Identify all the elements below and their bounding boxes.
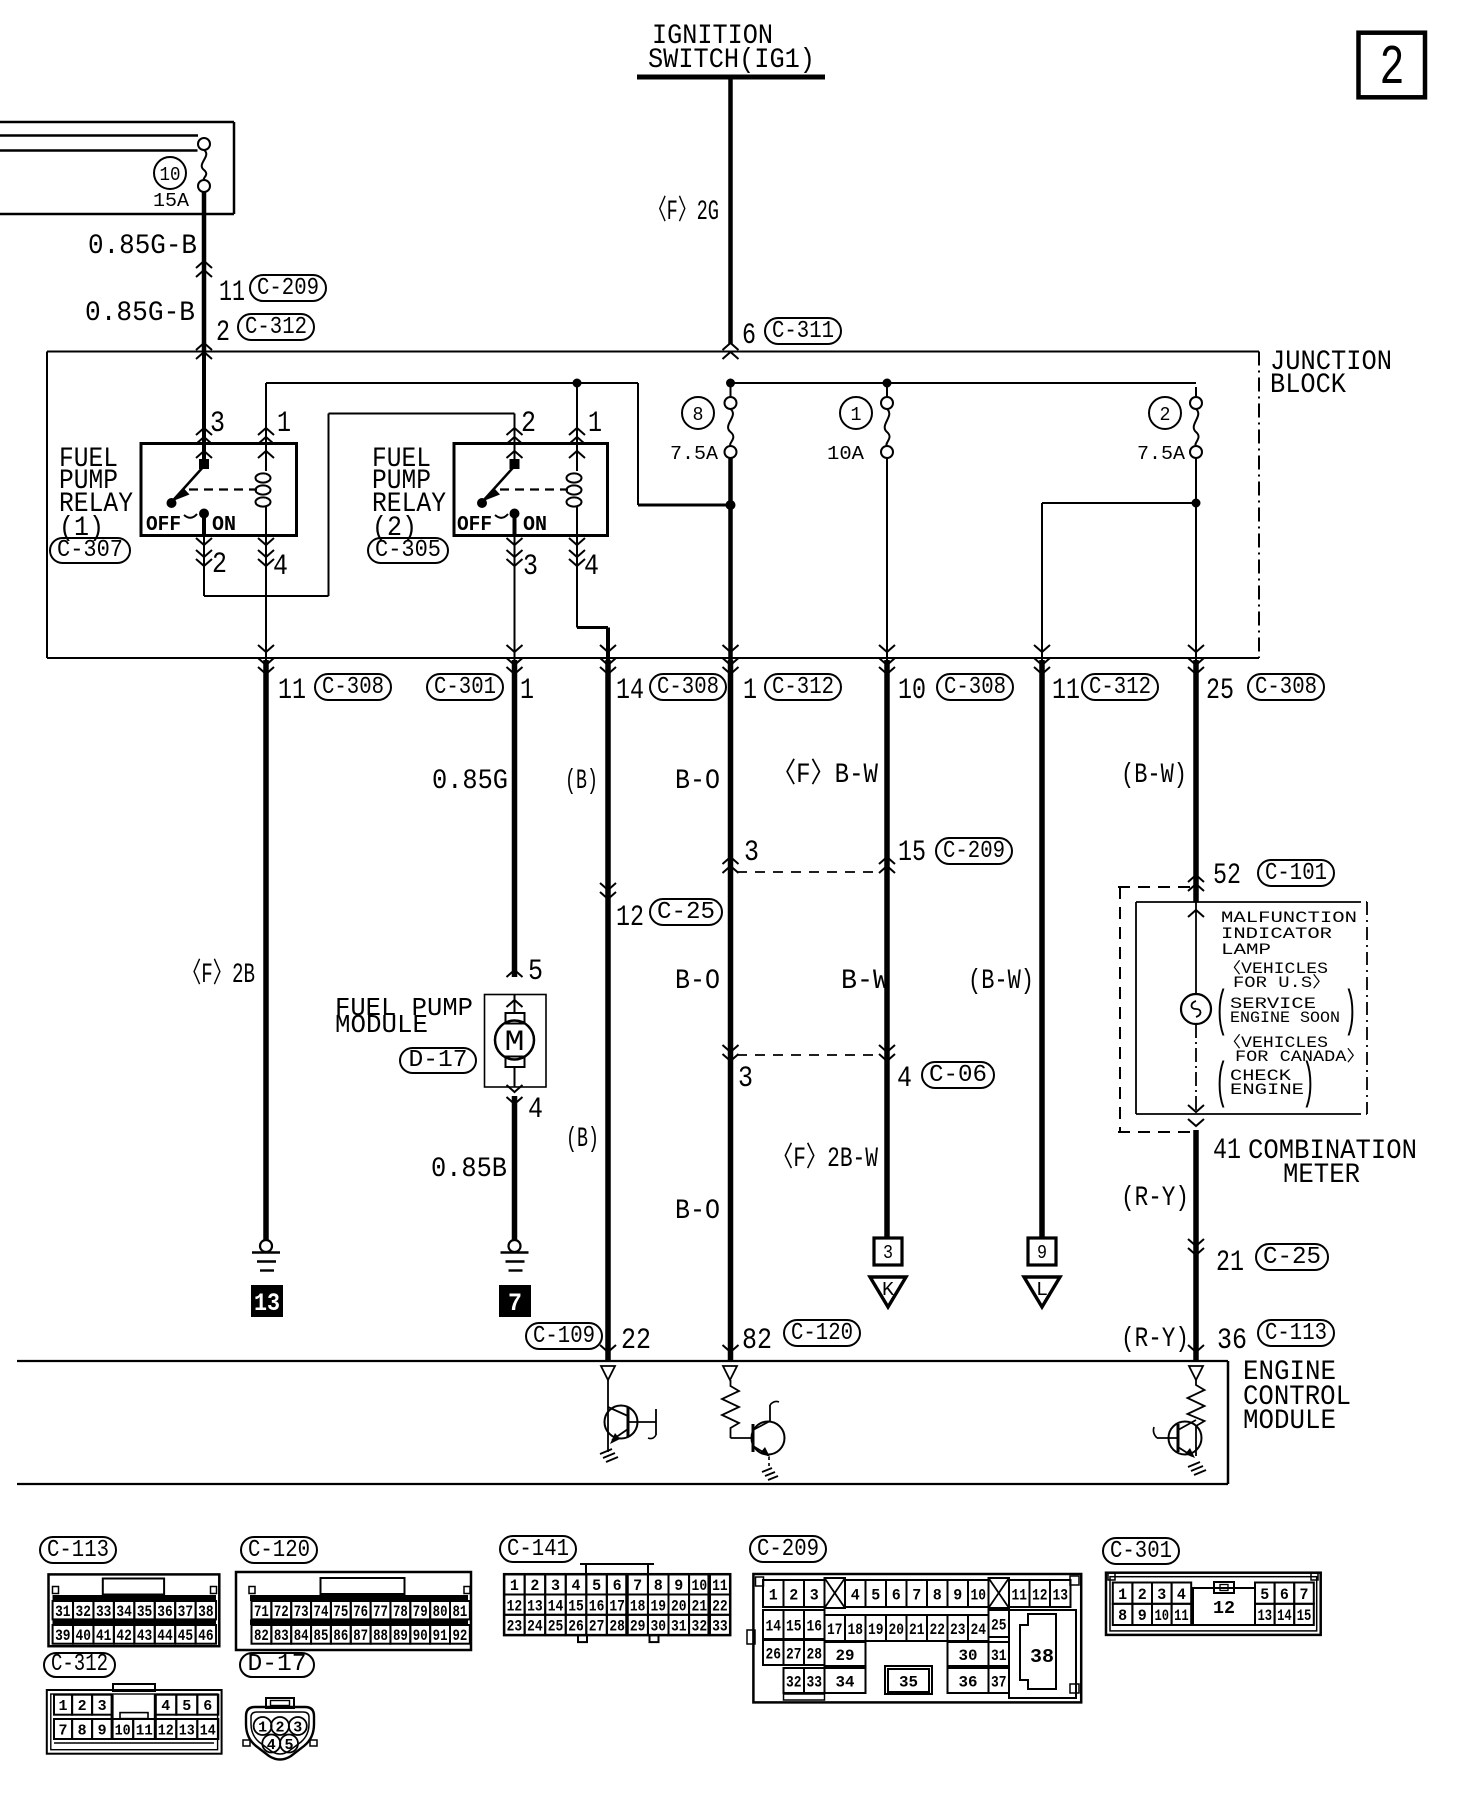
- svg-text:7: 7: [508, 1289, 522, 1318]
- svg-text:(: (: [1215, 984, 1228, 1041]
- svg-text:3: 3: [883, 1242, 893, 1264]
- svg-text:2: 2: [1138, 1586, 1147, 1604]
- svg-text:31: 31: [991, 1647, 1007, 1665]
- relay 2 coil: [567, 444, 582, 536]
- svg-text:FOR U.S〉: FOR U.S〉: [1233, 974, 1331, 992]
- label (F)2B-W: [772, 1141, 878, 1175]
- svg-text:13: 13: [527, 1597, 543, 1615]
- svg-text:14: 14: [1277, 1607, 1292, 1625]
- svg-text:C-308: C-308: [944, 674, 1006, 701]
- svg-text:5: 5: [871, 1586, 880, 1604]
- svg-text:24: 24: [527, 1618, 543, 1636]
- connector crossing 6 (C-311): [723, 318, 842, 359]
- svg-text:75: 75: [333, 1603, 348, 1621]
- svg-text:C-312: C-312: [245, 314, 307, 341]
- node: relay2 coil tap: [573, 379, 582, 388]
- connector label (C-307): [50, 537, 130, 564]
- relay 2 OFF/ON labels: [457, 514, 547, 537]
- svg-text:38: 38: [1030, 1646, 1054, 1668]
- svg-text:12: 12: [1213, 1599, 1235, 1619]
- svg-text:C-308: C-308: [657, 674, 719, 701]
- svg-text:18: 18: [630, 1597, 646, 1615]
- svg-text:M: M: [505, 1026, 525, 1060]
- svg-text:13: 13: [254, 1289, 280, 1318]
- svg-text:78: 78: [393, 1603, 408, 1621]
- svg-text:25: 25: [1206, 674, 1234, 708]
- relay 2 box: [454, 444, 608, 536]
- svg-text:C-113: C-113: [47, 1537, 109, 1564]
- svg-text:C-109: C-109: [533, 1323, 595, 1350]
- svg-text:2: 2: [276, 1720, 285, 1737]
- svg-text:BLOCK: BLOCK: [1270, 370, 1346, 401]
- combination meter dashed boundary: [1118, 887, 1196, 1132]
- wire: 11 C-312 to data link terminal L ((B-W)): [1039, 660, 1045, 1238]
- node: ignition bus at fuse 8: [726, 379, 735, 388]
- connector C-312 label: [44, 1651, 115, 1678]
- svg-text:9: 9: [98, 1722, 107, 1739]
- svg-text:C-120: C-120: [248, 1537, 310, 1564]
- wire: MIL to ECM pin 36 ((R-Y)): [1193, 1130, 1199, 1361]
- svg-text:C-209: C-209: [257, 275, 319, 302]
- svg-text:5: 5: [1260, 1586, 1269, 1604]
- svg-text:11: 11: [1174, 1607, 1189, 1625]
- svg-text:1: 1: [1118, 1586, 1127, 1604]
- svg-text:ENGINE: ENGINE: [1230, 1081, 1304, 1099]
- connector crossing 2 (C-312): [196, 314, 314, 359]
- wire: pin 1 riser relay 1 coil: [258, 383, 291, 458]
- svg-text:2: 2: [789, 1586, 798, 1604]
- svg-text:4: 4: [584, 550, 599, 584]
- svg-text:21: 21: [1216, 1246, 1244, 1280]
- svg-text:C-209: C-209: [943, 838, 1005, 865]
- svg-text:12: 12: [158, 1722, 174, 1739]
- label (R-Y) lower: [1121, 1324, 1189, 1355]
- wire: fuel pump module to ground 7 (0.85B): [512, 1096, 518, 1240]
- svg-text:4: 4: [897, 1062, 912, 1096]
- wire: ignition bus inside junction block (y=383): [731, 382, 1197, 384]
- wire label 10 (C-308): [898, 674, 1013, 708]
- ground symbol 13: [251, 1240, 283, 1318]
- relay 1 coil link dashed: [189, 488, 257, 490]
- svg-text:(R-Y): (R-Y): [1121, 1324, 1189, 1355]
- svg-text:22: 22: [930, 1621, 946, 1639]
- label (R-Y) upper: [1121, 1183, 1189, 1214]
- svg-text:40: 40: [76, 1627, 91, 1645]
- svg-text:36: 36: [959, 1673, 978, 1691]
- svg-text:43: 43: [137, 1627, 152, 1645]
- wire: ignition feed (F)2G vertical: [728, 79, 733, 344]
- svg-text:(B-W): (B-W): [968, 966, 1034, 997]
- svg-text:11: 11: [278, 674, 306, 708]
- label 41 COMBINATION METER: [1213, 1134, 1417, 1191]
- wire label 11 (C-312): [1052, 674, 1158, 708]
- MIL lamp bulb: [1181, 994, 1211, 1024]
- svg-text:3: 3: [210, 407, 225, 441]
- svg-text:C-308: C-308: [1255, 674, 1317, 701]
- connector label (D-17): [400, 1047, 476, 1074]
- svg-text:12: 12: [616, 901, 644, 935]
- svg-text:16: 16: [807, 1617, 823, 1635]
- svg-text:MODULE: MODULE: [1243, 1406, 1336, 1437]
- svg-text:38: 38: [198, 1603, 213, 1621]
- wire: battery feed lines: [0, 136, 198, 151]
- terminal L triangle: [1024, 1277, 1060, 1307]
- label (F)B-W: [772, 757, 878, 791]
- fuel pump motor M: [495, 995, 534, 1088]
- fuse 2 7.5A: [1137, 387, 1202, 465]
- svg-text:34: 34: [116, 1603, 132, 1621]
- svg-text:1: 1: [510, 1577, 519, 1595]
- svg-text:20: 20: [671, 1597, 687, 1615]
- svg-text:23: 23: [507, 1618, 523, 1636]
- svg-text:MODULE: MODULE: [335, 1010, 428, 1040]
- svg-text:C-301: C-301: [434, 674, 496, 701]
- relay 2 coil link dashed: [500, 488, 568, 490]
- label B-O row1: [675, 766, 720, 797]
- terminal K triangle: [870, 1277, 906, 1307]
- svg-text:4: 4: [572, 1577, 581, 1595]
- svg-text:C-06: C-06: [929, 1062, 987, 1089]
- svg-text:52: 52: [1213, 859, 1241, 893]
- svg-text:32: 32: [692, 1618, 708, 1636]
- svg-text:L: L: [1036, 1279, 1048, 1301]
- ECM pin label 82 (C-120): [723, 1320, 861, 1358]
- connector crossing 11 (C-209): [196, 261, 326, 310]
- svg-text:82: 82: [254, 1627, 269, 1645]
- node: ignition bus at fuse 1: [883, 379, 892, 388]
- svg-text:(R-Y): (R-Y): [1121, 1183, 1189, 1214]
- svg-text:3: 3: [738, 1062, 753, 1096]
- svg-text:K: K: [882, 1279, 895, 1301]
- svg-text:C-141: C-141: [507, 1536, 569, 1563]
- svg-text:17: 17: [827, 1621, 843, 1639]
- svg-text:B-O: B-O: [675, 766, 720, 797]
- node: fuse 2 split: [1192, 499, 1201, 508]
- svg-text:(: (: [1215, 1056, 1228, 1113]
- twisted pair link 3 / 15 (C-209): [723, 836, 1013, 873]
- svg-text:28: 28: [807, 1645, 823, 1663]
- connector C-301 label: [1103, 1538, 1179, 1565]
- svg-text:26: 26: [766, 1645, 782, 1663]
- svg-text:4: 4: [267, 1737, 276, 1754]
- page number box 2: [1359, 33, 1426, 100]
- svg-text:74: 74: [314, 1603, 329, 1621]
- svg-text:C-101: C-101: [1265, 860, 1327, 887]
- connector C-120 pinout: [236, 1572, 471, 1650]
- svg-text:11: 11: [219, 276, 245, 310]
- svg-text:87: 87: [353, 1627, 368, 1645]
- svg-text:10: 10: [898, 674, 926, 708]
- svg-text:〈F〉2G: 〈F〉2G: [648, 194, 719, 228]
- svg-text:C-312: C-312: [51, 1651, 108, 1678]
- junction block outline: [47, 352, 1259, 659]
- terminal 3 box (K): [874, 1238, 902, 1265]
- ignition switch (IG1) terminal bar: [637, 21, 825, 77]
- svg-text:10: 10: [1155, 1607, 1170, 1625]
- junction block exit crossings: [258, 645, 1204, 674]
- svg-text:C-311: C-311: [772, 318, 834, 345]
- svg-text:30: 30: [959, 1647, 978, 1665]
- svg-text:42: 42: [116, 1627, 131, 1645]
- svg-text:13: 13: [179, 1722, 195, 1739]
- label <F>2G: [648, 194, 719, 228]
- fusible link box (battery feed): [0, 122, 234, 214]
- svg-text:18: 18: [848, 1621, 864, 1639]
- svg-text:C-25: C-25: [657, 899, 715, 926]
- connector crossing 21 (C-25): [1188, 1239, 1328, 1280]
- svg-text:15: 15: [1297, 1607, 1312, 1625]
- svg-text:C-305: C-305: [375, 537, 441, 564]
- svg-text:88: 88: [373, 1627, 388, 1645]
- svg-text:28: 28: [609, 1618, 625, 1636]
- transistor Q3 (ECM pin 36 driver): [1153, 1420, 1206, 1475]
- svg-text:37: 37: [991, 1673, 1007, 1691]
- MIL text block: [1215, 909, 1365, 1113]
- svg-text:6: 6: [1280, 1586, 1289, 1604]
- svg-text:30: 30: [650, 1618, 666, 1636]
- ECM pin label 36 (C-113): [1188, 1320, 1334, 1358]
- svg-text:ENGINE SOON: ENGINE SOON: [1230, 1009, 1340, 1027]
- svg-text:12: 12: [1032, 1586, 1048, 1604]
- svg-text:15: 15: [898, 836, 926, 870]
- svg-text:34: 34: [836, 1673, 855, 1691]
- svg-text:2: 2: [1160, 404, 1171, 426]
- svg-text:3: 3: [293, 1720, 302, 1737]
- svg-text:73: 73: [294, 1603, 309, 1621]
- malfunction indicator lamp box: [1136, 902, 1367, 1114]
- svg-text:9: 9: [674, 1577, 683, 1595]
- svg-text:OFF: OFF: [457, 514, 492, 537]
- connector C-141 pinout: [504, 1564, 730, 1642]
- svg-text:31: 31: [55, 1603, 70, 1621]
- svg-text:6: 6: [742, 319, 756, 353]
- svg-text:7.5A: 7.5A: [670, 443, 719, 465]
- connector C-113 pinout: [49, 1574, 220, 1646]
- svg-text:41: 41: [1213, 1134, 1241, 1168]
- svg-text:): ): [1344, 984, 1357, 1041]
- svg-text:3: 3: [810, 1586, 819, 1604]
- svg-text:FOR CANADA〉: FOR CANADA〉: [1235, 1048, 1365, 1066]
- svg-text:14: 14: [200, 1722, 216, 1739]
- svg-text:35: 35: [137, 1603, 152, 1621]
- svg-text:6: 6: [892, 1586, 901, 1604]
- svg-text:92: 92: [453, 1627, 468, 1645]
- svg-text:80: 80: [433, 1603, 448, 1621]
- svg-text:46: 46: [198, 1627, 213, 1645]
- wire: 11 C-308 to ground 13 ((F)2B): [263, 660, 269, 1240]
- svg-text:23: 23: [950, 1621, 966, 1639]
- svg-text:27: 27: [589, 1618, 605, 1636]
- svg-text:14: 14: [548, 1597, 564, 1615]
- transistor Q1 (ECM pin 22 driver): [600, 1366, 656, 1462]
- wire: relay 1 pin 4 output: [258, 536, 288, 661]
- svg-text:0.85G-B: 0.85G-B: [88, 231, 197, 262]
- resistor R1 (pin 82 base resistor): [722, 1366, 739, 1438]
- wire label 11 (C-308): [278, 674, 391, 708]
- svg-text:27: 27: [786, 1645, 802, 1663]
- svg-text:5: 5: [182, 1698, 191, 1715]
- connector crossing 52 (C-101): [1188, 859, 1334, 893]
- svg-text:91: 91: [433, 1627, 448, 1645]
- svg-text:15: 15: [568, 1597, 584, 1615]
- svg-text:C-120: C-120: [791, 1320, 853, 1347]
- svg-text:8: 8: [654, 1577, 663, 1595]
- wire: fuse 1 output down (10 C-308 feed): [886, 458, 888, 660]
- wire: relay 2 pin 4 output: [569, 536, 608, 661]
- svg-text:1: 1: [851, 404, 862, 426]
- svg-text:10: 10: [692, 1577, 708, 1595]
- svg-text:METER: METER: [1283, 1160, 1360, 1191]
- svg-text:20: 20: [889, 1621, 905, 1639]
- connector C-113 label: [40, 1537, 116, 1564]
- svg-text:1: 1: [588, 407, 602, 441]
- svg-text:0.85G: 0.85G: [432, 766, 508, 797]
- svg-text:29: 29: [836, 1647, 855, 1665]
- svg-text:3: 3: [551, 1577, 560, 1595]
- node: fuse 8 output: [726, 500, 736, 510]
- svg-text:C-312: C-312: [1089, 674, 1151, 701]
- wire: relay 2 pin 3 output: [507, 536, 539, 661]
- svg-text:13: 13: [1258, 1607, 1273, 1625]
- svg-text:): ): [1302, 1056, 1315, 1113]
- svg-text:90: 90: [413, 1627, 428, 1645]
- svg-text:9: 9: [1138, 1607, 1147, 1625]
- svg-text:0.85B: 0.85B: [431, 1154, 507, 1185]
- svg-text:4: 4: [273, 550, 288, 584]
- svg-text:1: 1: [743, 674, 757, 708]
- fuel pump module box: [485, 995, 547, 1088]
- svg-text:31: 31: [671, 1618, 687, 1636]
- label B-O row3: [675, 1196, 720, 1227]
- svg-text:(B): (B): [566, 1124, 599, 1155]
- svg-text:1: 1: [59, 1698, 68, 1715]
- svg-text:9: 9: [1037, 1242, 1047, 1264]
- svg-text:21: 21: [909, 1621, 925, 1639]
- relay 1 OFF/ON labels: [146, 514, 236, 537]
- label B-O row2: [675, 966, 720, 997]
- svg-text:2: 2: [212, 548, 227, 582]
- svg-text:10A: 10A: [827, 443, 865, 465]
- svg-text:9: 9: [953, 1586, 962, 1604]
- connector C-141 label: [500, 1536, 576, 1563]
- label (F)2B: [182, 957, 255, 991]
- svg-text:1: 1: [769, 1586, 778, 1604]
- MIL box exit crossing: [1188, 1105, 1204, 1126]
- svg-text:19: 19: [868, 1621, 884, 1639]
- svg-text:5: 5: [592, 1577, 601, 1595]
- svg-text:ON: ON: [212, 514, 236, 537]
- ground symbol 7: [499, 1240, 531, 1318]
- svg-text:4: 4: [161, 1698, 170, 1715]
- relay 1 switch: [167, 460, 210, 536]
- wire: fuse 2 output down and split: [1042, 458, 1196, 660]
- svg-text:86: 86: [333, 1627, 348, 1645]
- svg-text:5: 5: [285, 1737, 294, 1754]
- svg-text:32: 32: [76, 1603, 91, 1621]
- label (B-W) mid: [968, 966, 1034, 997]
- svg-text:4: 4: [528, 1093, 543, 1127]
- svg-text:D-17: D-17: [248, 1651, 307, 1678]
- wire: C-301 1 to fuel pump module (0.85G): [512, 660, 518, 977]
- label JUNCTION BLOCK: [1270, 347, 1392, 401]
- svg-text:26: 26: [568, 1618, 584, 1636]
- connector crossing 12 (C-25): [600, 883, 722, 935]
- svg-text:33: 33: [712, 1618, 728, 1636]
- fuse 8 7.5A: [670, 387, 737, 465]
- label ENGINE CONTROL MODULE: [1243, 1357, 1351, 1437]
- fuel pump relay (2) labels: [372, 444, 446, 544]
- svg-text:C-312: C-312: [772, 674, 834, 701]
- connector C-209 pinout: [747, 1574, 1081, 1702]
- terminal 9 box (L): [1028, 1238, 1056, 1265]
- label (B) lower: [566, 1124, 599, 1155]
- svg-text:8: 8: [933, 1586, 942, 1604]
- svg-text:85: 85: [314, 1627, 329, 1645]
- wire label 1 (C-312): [743, 674, 841, 708]
- svg-text:3: 3: [523, 550, 538, 584]
- svg-text:84: 84: [294, 1627, 309, 1645]
- svg-text:10: 10: [160, 164, 181, 186]
- svg-text:77: 77: [373, 1603, 388, 1621]
- svg-text:32: 32: [786, 1673, 802, 1691]
- fuel pump relay (1) labels: [59, 444, 133, 544]
- svg-text:8: 8: [1118, 1607, 1127, 1625]
- wire: 0.85G-B from fuse 10 down to junction block: [202, 192, 207, 351]
- svg-text:22: 22: [712, 1597, 728, 1615]
- relay 2 switch: [477, 460, 520, 536]
- svg-text:7: 7: [633, 1577, 642, 1595]
- svg-text:39: 39: [55, 1627, 70, 1645]
- fuel pump module pin 5: [507, 955, 544, 1007]
- svg-text:36: 36: [157, 1603, 172, 1621]
- wire: coil supply bus from fuse 8 (y=383): [266, 383, 731, 505]
- wire: fuse 8 output down (1 C-312 feed): [728, 458, 733, 660]
- relay 1 box: [141, 444, 297, 536]
- svg-text:29: 29: [630, 1618, 646, 1636]
- svg-text:3: 3: [98, 1698, 107, 1715]
- svg-text:22: 22: [621, 1324, 651, 1358]
- label 0.85G-B (lower): [85, 298, 195, 329]
- svg-text:79: 79: [413, 1603, 428, 1621]
- svg-text:71: 71: [254, 1603, 269, 1621]
- svg-text:45: 45: [178, 1627, 193, 1645]
- fuel pump module pin 4: [507, 1085, 544, 1127]
- wire: pin 2 feed into relay 2: [507, 407, 537, 462]
- label (B-W) right: [1121, 760, 1187, 791]
- svg-text:4: 4: [1177, 1586, 1186, 1604]
- wire: 10 C-308 to data link terminal K ((F)B-W): [884, 660, 890, 1238]
- svg-text:10: 10: [971, 1586, 987, 1604]
- resistor R2 (pin 36 base resistor): [1188, 1366, 1205, 1426]
- connector D-17 label: [240, 1651, 314, 1678]
- connector C-312 pinout: [47, 1684, 222, 1754]
- svg-text:76: 76: [353, 1603, 368, 1621]
- label B-W: [841, 966, 889, 997]
- svg-text:41: 41: [96, 1627, 111, 1645]
- svg-text:25: 25: [991, 1616, 1007, 1634]
- svg-text:82: 82: [742, 1324, 772, 1358]
- svg-text:3: 3: [1157, 1586, 1166, 1604]
- svg-text:ON: ON: [523, 514, 547, 537]
- svg-text:89: 89: [393, 1627, 408, 1645]
- svg-text:〈F〉2B-W: 〈F〉2B-W: [772, 1141, 878, 1175]
- svg-text:1: 1: [520, 674, 534, 708]
- svg-text:C-301: C-301: [1110, 1538, 1172, 1565]
- svg-text:33: 33: [807, 1673, 823, 1691]
- svg-text:〈F〉2B: 〈F〉2B: [182, 957, 255, 991]
- connector label (C-305): [368, 537, 448, 564]
- svg-text:B-W: B-W: [841, 966, 889, 997]
